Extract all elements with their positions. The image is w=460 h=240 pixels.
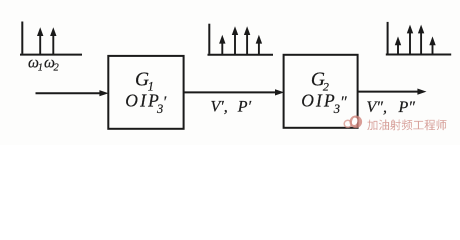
watermark logo white flame	[352, 118, 358, 125]
output spectral line omega1 (stem + head)	[407, 25, 413, 55]
output spectral line omega2 (stem + head)	[418, 25, 424, 55]
interstage spectrum vertical axis	[208, 24, 210, 54]
output spectral line IM3 upper (stem + head)	[429, 36, 435, 54]
svg-text:V″,: V″,	[367, 99, 387, 116]
label G2	[311, 69, 329, 93]
label V', P' (interstage voltage and power)	[211, 98, 252, 115]
svg-text:1: 1	[38, 63, 43, 74]
label OIP3' (stage 1 output intercept)	[125, 90, 167, 116]
label omega1	[28, 54, 43, 73]
wire: output of stage 2 (with arrowhead)	[358, 89, 427, 95]
svg-text:2: 2	[54, 63, 60, 74]
interstage spectral line omega2 (stem + head)	[244, 26, 250, 55]
input spectral line omega2 (stem + head)	[50, 27, 56, 54]
label omega2	[44, 54, 60, 73]
watermark logo red disc	[350, 116, 363, 129]
interstage spectral line IM3 upper (stem + head)	[256, 35, 262, 55]
wire: input signal into stage 1 (with arrowhead)	[36, 90, 109, 96]
interstage spectral line IM3 lower (stem + head)	[219, 35, 225, 55]
svg-text:V′,: V′,	[211, 98, 228, 115]
svg-text:P″: P″	[398, 99, 416, 116]
input spectrum horizontal axis	[20, 54, 82, 56]
input spectral line omega1 (stem + head)	[37, 27, 43, 54]
svg-text:OIP: OIP	[125, 90, 161, 110]
input spectrum vertical axis	[21, 22, 23, 54]
interstage spectral line omega1 (stem + head)	[232, 26, 238, 55]
svg-text:P′: P′	[237, 98, 252, 115]
output spectral line IM3 lower (stem + head)	[395, 36, 401, 54]
amplifier block U1	[108, 56, 183, 129]
label V'', P'' (output voltage and power)	[367, 99, 416, 116]
amplifier block U2	[284, 55, 358, 128]
svg-text:″: ″	[340, 94, 347, 111]
watermark logo small ring	[344, 120, 351, 127]
output spectrum vertical axis	[387, 22, 389, 54]
output spectrum horizontal axis	[386, 54, 451, 56]
label G1	[135, 69, 154, 93]
label OIP3'' (stage 2 output intercept)	[301, 90, 347, 116]
svg-text:3: 3	[333, 102, 340, 116]
watermark text (vectorized CJK glyphs)	[367, 119, 446, 130]
wire: interstage from stage 1 to stage 2 (with arrowhead)	[184, 89, 285, 95]
interstage spectrum horizontal axis	[208, 54, 274, 56]
svg-text:OIP: OIP	[301, 90, 337, 110]
svg-text:′: ′	[163, 94, 167, 111]
